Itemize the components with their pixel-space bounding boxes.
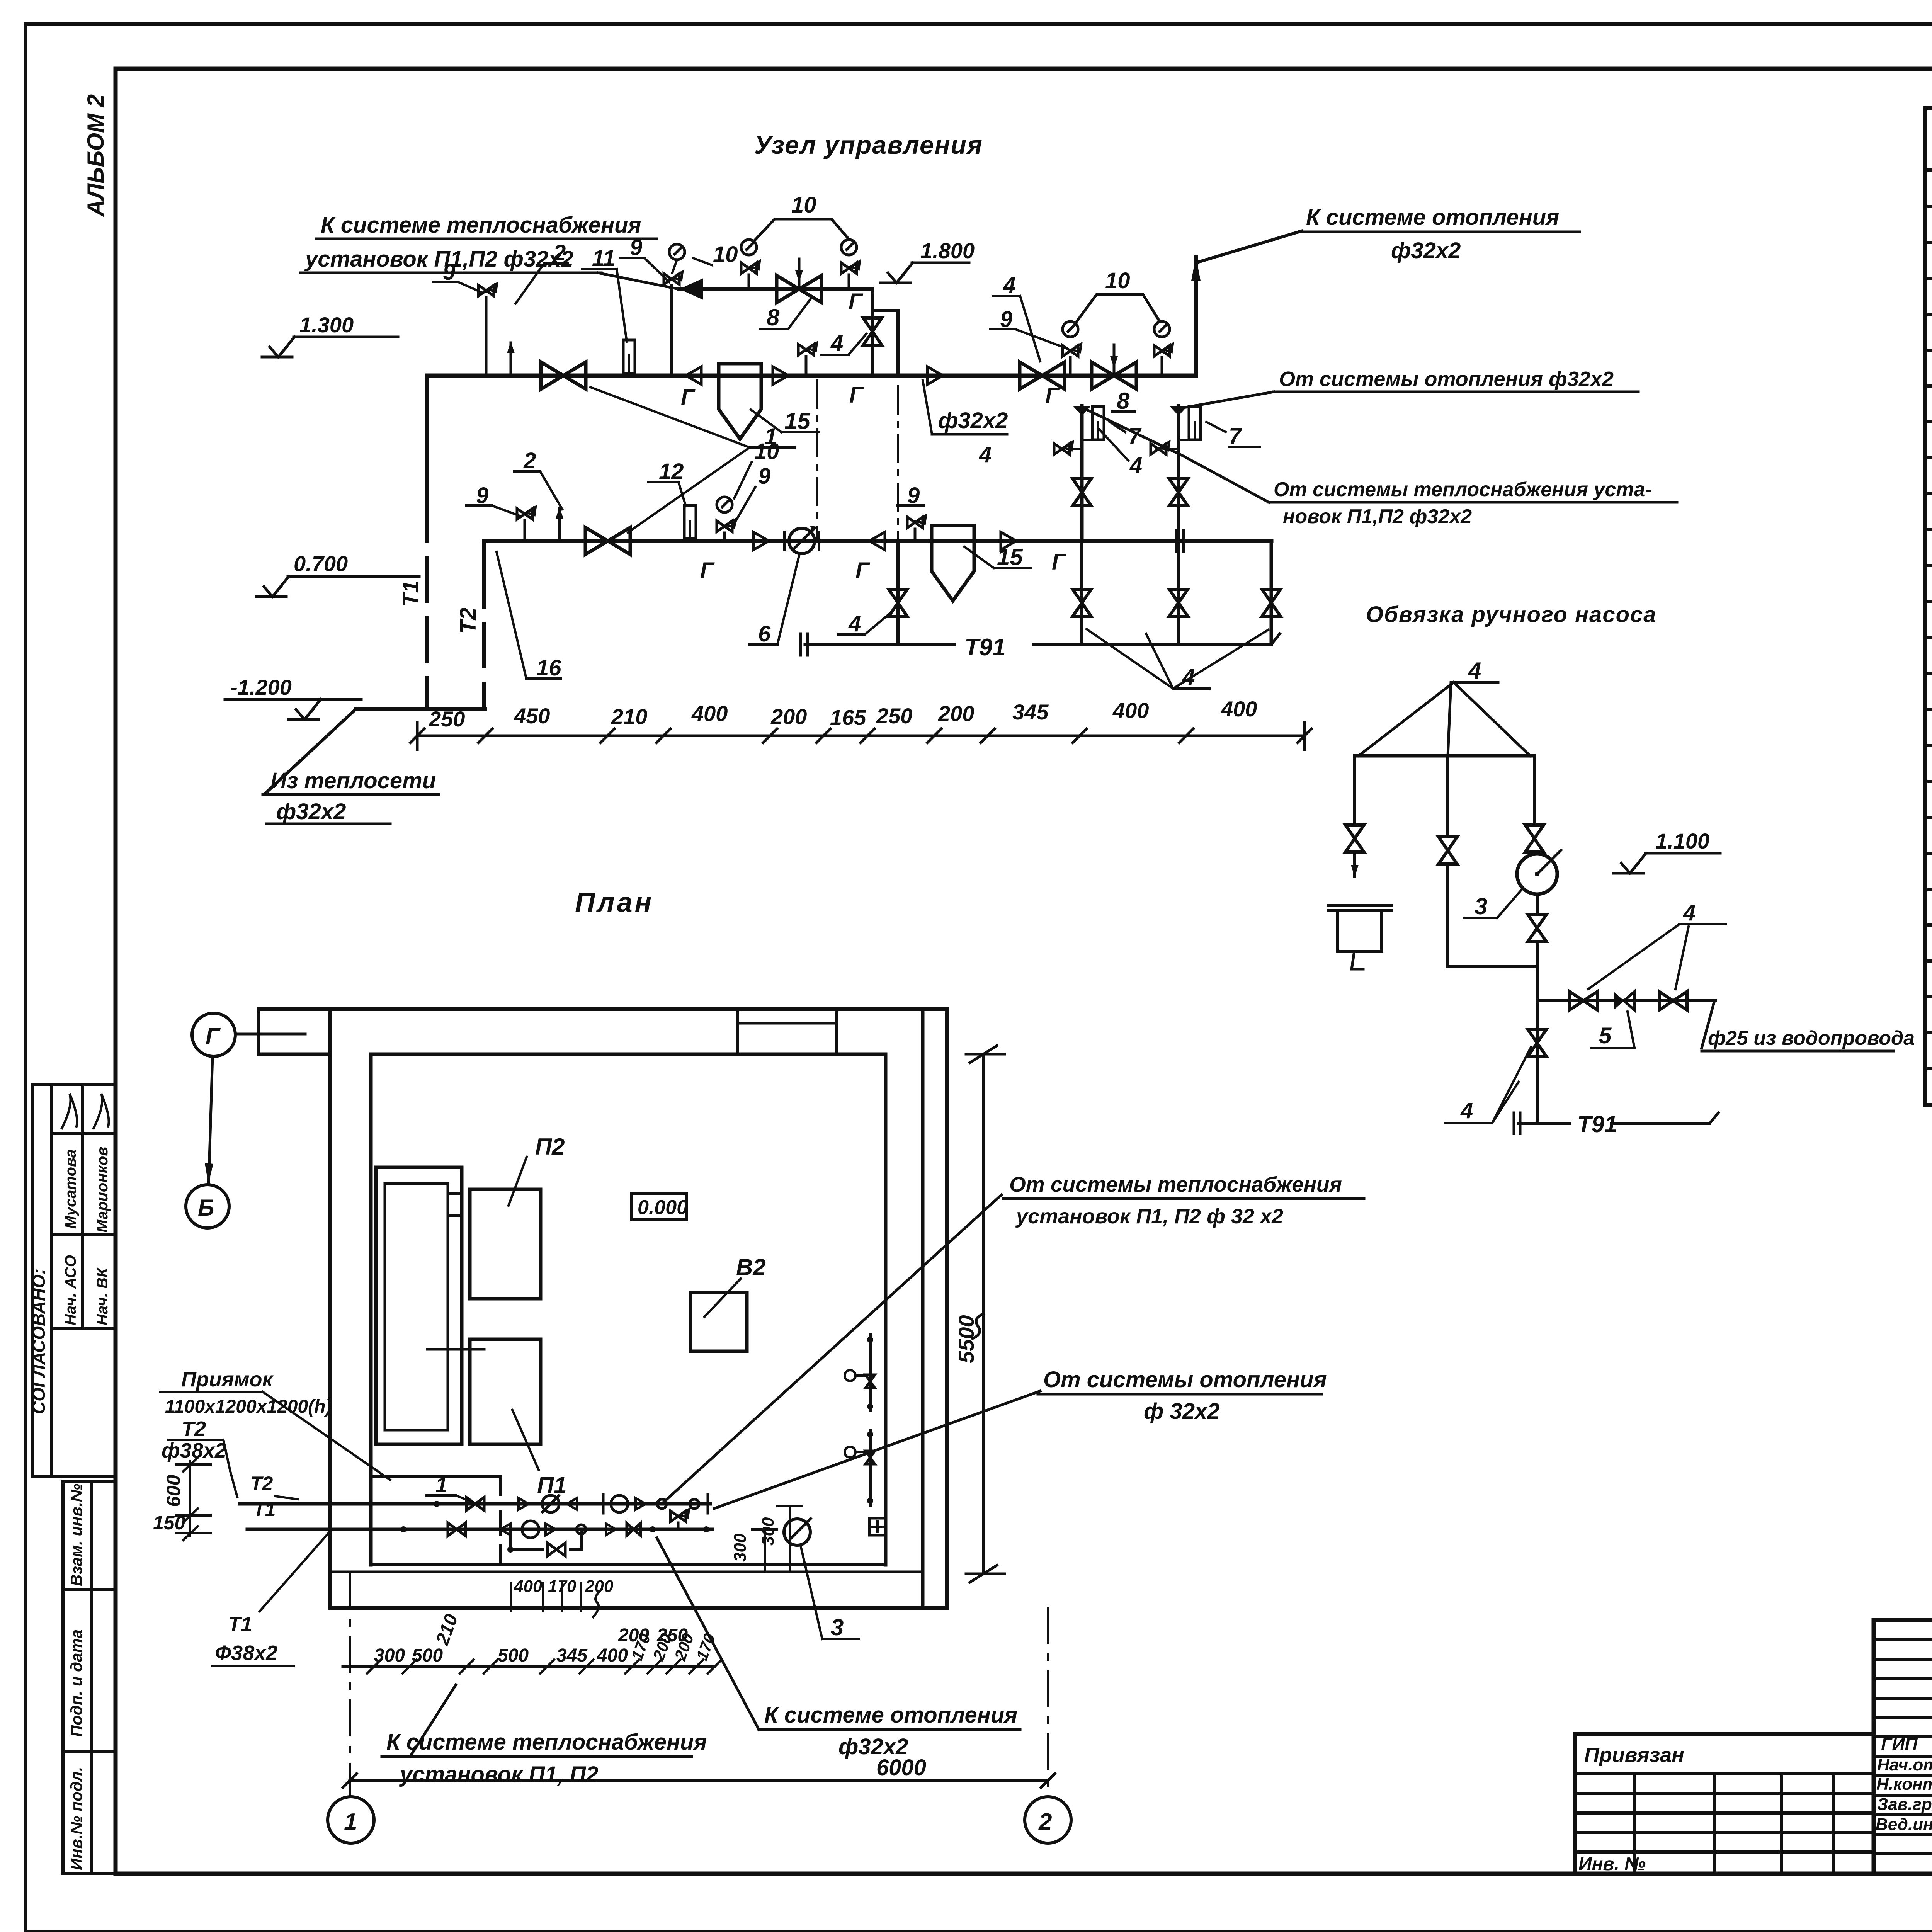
svg-text:К системе теплоснабжения: К системе теплоснабжения [321, 213, 641, 238]
dim chain lower [343, 1665, 715, 1668]
header bottom [1925, 168, 1932, 172]
svg-text:П2: П2 [535, 1134, 565, 1160]
svg-text:ф32х2: ф32х2 [1391, 238, 1461, 263]
valve 4 small with stem [798, 343, 817, 355]
gate valve 4 supply right [1020, 362, 1065, 389]
top wall window dividers [736, 1009, 739, 1054]
svg-text:Г: Г [681, 385, 696, 410]
svg-text:4: 4 [1003, 273, 1015, 298]
drain verticals to T91 [896, 541, 900, 645]
tank connection box [448, 1194, 462, 1216]
svg-text:345: 345 [556, 1645, 588, 1666]
check valve right [773, 367, 788, 384]
svg-text:400: 400 [691, 701, 728, 726]
unit P2 [470, 1189, 541, 1299]
gauge pair right with label 10 [1063, 344, 1081, 356]
svg-text:Т91: Т91 [1577, 1111, 1617, 1137]
plan T2 symbols [434, 1501, 440, 1507]
svg-text:400: 400 [1221, 697, 1257, 721]
svg-text:Взам. инв.№: Взам. инв.№ [67, 1483, 85, 1586]
tank inner [385, 1184, 448, 1430]
svg-text:ф32х2: ф32х2 [938, 408, 1008, 433]
riser to heating system [1194, 257, 1198, 376]
privyazan table [1575, 1734, 1874, 1874]
svg-text:Г: Г [206, 1023, 221, 1049]
svg-text:Нач. АСО: Нач. АСО [62, 1255, 79, 1325]
svg-text:1: 1 [344, 1809, 357, 1835]
svg-text:300: 300 [374, 1645, 405, 1666]
axis G-B arrow [209, 1056, 213, 1185]
svg-text:300: 300 [759, 1517, 777, 1546]
gauge pair on bypass: cock left [741, 261, 760, 274]
svg-text:500: 500 [412, 1645, 443, 1666]
leader from Ot sistemy teplosnabzheniya to plan [663, 1195, 1002, 1502]
podp i data box [63, 1590, 116, 1752]
svg-text:К системе теплоснабжения: К системе теплоснабжения [386, 1730, 707, 1755]
svg-text:10: 10 [713, 242, 738, 267]
inner frame bottom [116, 1872, 1932, 1876]
bypass drop [871, 289, 874, 376]
svg-text:Т91: Т91 [964, 634, 1006, 661]
bottom inlet line [355, 707, 485, 711]
svg-text:4: 4 [848, 611, 861, 636]
right branch [1533, 756, 1536, 823]
axis circle 1 [328, 1797, 374, 1843]
svg-text:Марионков: Марионков [94, 1147, 111, 1233]
T91 line [805, 643, 954, 646]
svg-text:Зав.гр.: Зав.гр. [1877, 1795, 1932, 1814]
svg-text:ф 32х2: ф 32х2 [1144, 1399, 1219, 1424]
tank mid tick [427, 1348, 484, 1351]
svg-text:Г: Г [849, 383, 864, 408]
valves on risers [1073, 479, 1091, 506]
axis G line [235, 1033, 305, 1036]
left wall inner [369, 1054, 373, 1565]
svg-text:200: 200 [770, 704, 807, 729]
svg-text:450: 450 [514, 704, 550, 728]
tank outer [376, 1167, 462, 1444]
svg-text:1.100: 1.100 [1655, 829, 1709, 853]
svg-text:210: 210 [611, 704, 647, 729]
svg-text:Подп. и дата: Подп. и дата [67, 1629, 85, 1737]
5500 dimension [982, 1054, 985, 1574]
branch to waterline [1537, 999, 1716, 1002]
svg-text:В2: В2 [736, 1254, 766, 1280]
axis circle 2 [1025, 1797, 1071, 1843]
axis 2 dashed [1047, 1608, 1049, 1795]
svg-text:План: План [575, 887, 654, 918]
T1 riser [425, 376, 429, 498]
sink [1328, 904, 1391, 907]
svg-text:7: 7 [1229, 423, 1242, 449]
svg-text:Ф38х2: Ф38х2 [215, 1641, 277, 1665]
svg-text:200: 200 [938, 701, 974, 726]
T2 riser [482, 541, 486, 564]
svg-text:1: 1 [435, 1473, 447, 1497]
svg-text:Б: Б [198, 1195, 214, 1221]
valve 4 vertical on bypass drop [863, 318, 882, 345]
thermometer 7 left [1092, 406, 1104, 440]
check valve left [686, 367, 701, 384]
svg-text:Т1: Т1 [253, 1499, 276, 1520]
svg-text:ф38х2: ф38х2 [162, 1439, 226, 1462]
svg-text:Г: Г [1052, 549, 1066, 575]
inner frame top line [116, 67, 1932, 71]
leader to bypass arrow [598, 273, 679, 289]
svg-text:250: 250 [876, 704, 912, 728]
svg-text:600: 600 [163, 1475, 184, 1507]
svg-text:250: 250 [429, 707, 465, 731]
leader from Ot sistemy otopleniya to plan [714, 1391, 1040, 1509]
svg-text:5: 5 [1599, 1023, 1612, 1048]
svg-text:8: 8 [767, 304, 780, 330]
svg-text:Узел управления: Узел управления [754, 131, 983, 159]
vzam inv box [63, 1482, 116, 1590]
svg-text:Н.контр.: Н.контр. [1876, 1775, 1932, 1794]
svg-text:500: 500 [498, 1645, 529, 1666]
svg-text:новок П1,П2 ф32х2: новок П1,П2 ф32х2 [1283, 505, 1472, 528]
svg-text:345: 345 [1012, 700, 1049, 724]
svg-text:12: 12 [659, 459, 684, 484]
bypass left arrow [679, 278, 703, 300]
svg-text:К системе отопления: К системе отопления [1306, 205, 1559, 230]
svg-text:10: 10 [791, 192, 816, 218]
svg-text:2: 2 [553, 240, 566, 265]
return main pipe T2 [484, 539, 1271, 543]
svg-text:10: 10 [1105, 268, 1130, 293]
svg-text:ГИП: ГИП [1881, 1734, 1918, 1754]
svg-text:4: 4 [1129, 453, 1142, 478]
svg-text:4: 4 [830, 331, 843, 356]
check valve [753, 532, 769, 550]
gate valve 1 return [585, 527, 630, 554]
axis circle G [192, 1013, 235, 1056]
svg-text:-1.200: -1.200 [230, 675, 292, 699]
valve below pump [1536, 894, 1539, 913]
0.000 level box [632, 1194, 686, 1220]
cock on right riser [1151, 442, 1169, 454]
section line dashdot [897, 386, 899, 597]
svg-text:9: 9 [630, 235, 642, 260]
svg-text:4: 4 [1460, 1098, 1473, 1123]
svg-text:3: 3 [831, 1614, 844, 1640]
svg-text:Мусатова: Мусатова [62, 1149, 79, 1229]
svg-text:200: 200 [649, 1631, 675, 1663]
svg-text:СОГЛАСОВАНО:: СОГЛАСОВАНО: [29, 1269, 49, 1414]
svg-text:Из теплосети: Из теплосети [270, 768, 436, 793]
svg-text:Инв. №: Инв. № [1578, 1854, 1646, 1874]
svg-text:11: 11 [592, 246, 615, 271]
svg-text:Т1: Т1 [228, 1613, 252, 1636]
right wall [884, 1054, 888, 1565]
svg-text:Приямок: Приямок [181, 1368, 274, 1391]
svg-text:ф32х2: ф32х2 [276, 799, 346, 824]
svg-text:К системе отопления: К системе отопления [764, 1702, 1017, 1728]
svg-text:АЛЬБОМ 2: АЛЬБОМ 2 [83, 94, 109, 217]
inv no podl box [63, 1752, 116, 1874]
svg-text:400: 400 [514, 1577, 543, 1596]
svg-text:4: 4 [1683, 900, 1696, 925]
svg-text:6: 6 [758, 621, 771, 646]
mud filter 15 return [932, 526, 974, 601]
control valve 8 left [777, 276, 821, 303]
cock on left riser [1054, 442, 1073, 454]
svg-text:ф32х2: ф32х2 [838, 1734, 908, 1759]
middle branch [1446, 756, 1449, 835]
thermometer 11 [623, 340, 635, 373]
plan T1 symbols [400, 1526, 406, 1532]
svg-text:4: 4 [979, 442, 992, 467]
svg-text:Т2: Т2 [182, 1417, 206, 1440]
axis 1 dashed [349, 1574, 351, 1795]
svg-text:9: 9 [758, 464, 770, 489]
svg-text:ф25 из водопровода: ф25 из водопровода [1708, 1027, 1915, 1049]
bypass loop under T1 [510, 1529, 543, 1549]
svg-text:Обвязка ручного насоса: Обвязка ручного насоса [1366, 602, 1657, 627]
svg-text:2: 2 [1038, 1809, 1052, 1835]
svg-text:Т2: Т2 [250, 1473, 273, 1494]
svg-text:Г: Г [1045, 383, 1060, 408]
svg-text:210: 210 [432, 1611, 462, 1648]
svg-text:От системы теплоснабжения у: От системы теплоснабжения уста- [1274, 478, 1652, 501]
hook to label [1702, 1001, 1714, 1048]
svg-text:Нач.отд.: Нач.отд. [1877, 1755, 1932, 1774]
svg-text:0.700: 0.700 [294, 551, 348, 576]
thermometer risers pair [1080, 406, 1084, 541]
thermometer 7 right [1189, 406, 1201, 440]
cock 9 [478, 284, 497, 296]
bottom wall [371, 1563, 886, 1566]
svg-text:Вед.инж: Вед.инж [1876, 1815, 1932, 1834]
gate valve 1 supply [541, 362, 586, 389]
svg-text:3: 3 [1475, 893, 1487, 919]
hand pump 3 [1517, 854, 1557, 894]
svg-text:От системы теплоснабжения: От системы теплоснабжения [1009, 1172, 1342, 1196]
svg-text:165: 165 [830, 705, 866, 730]
svg-text:Т1: Т1 [398, 580, 423, 607]
svg-text:Инв.№ подл.: Инв.№ подл. [67, 1767, 85, 1870]
check valve right2 [1001, 532, 1016, 550]
priyamok rect in plan [371, 1477, 500, 1495]
svg-text:Г: Г [855, 558, 870, 583]
inner frame left [114, 69, 118, 1874]
approval stamp box [32, 1084, 116, 1476]
main down pipe [1536, 944, 1539, 1123]
cock 9 return [517, 507, 536, 519]
svg-text:2: 2 [523, 448, 536, 473]
svg-text:400: 400 [597, 1645, 628, 1666]
svg-text:10: 10 [754, 439, 779, 464]
bypass pipe [679, 287, 872, 291]
T91 stub [1519, 1122, 1570, 1125]
svg-text:8: 8 [1117, 388, 1130, 414]
cock 9 + gauge 10 [664, 272, 682, 284]
svg-text:установок П1,П2 ф32х2: установок П1,П2 ф32х2 [304, 247, 573, 272]
right wall risers [869, 1335, 872, 1410]
safety valve 2 [507, 342, 515, 376]
svg-text:установок П1, П2 ф 32 х2: установок П1, П2 ф 32 х2 [1015, 1205, 1283, 1228]
svg-text:Г: Г [849, 289, 863, 314]
axis circle B [186, 1185, 229, 1228]
gauge left [741, 240, 757, 255]
svg-text:0.000: 0.000 [638, 1196, 688, 1219]
check valve left [869, 532, 885, 550]
left branch [1353, 756, 1356, 823]
gauge pair label 10 arc [755, 219, 849, 240]
svg-text:От системы отопления ф32х2: От системы отопления ф32х2 [1279, 367, 1614, 391]
svg-text:5500: 5500 [954, 1315, 978, 1363]
svg-text:150: 150 [153, 1512, 185, 1534]
svg-text:Привязан: Привязан [1584, 1743, 1684, 1767]
gauge 10 + cock 9 return [717, 497, 732, 512]
top wall inner [371, 1053, 886, 1056]
check valve on supply right [927, 367, 943, 384]
left wall outer [328, 1009, 332, 1608]
svg-text:1.800: 1.800 [920, 238, 975, 263]
svg-text:установок П1, П2: установок П1, П2 [399, 1762, 599, 1787]
inlet diagonal from teploset [266, 709, 355, 793]
B2 box [690, 1293, 747, 1351]
cock 9 on return right [907, 515, 926, 528]
valve 4 on main down [1528, 1029, 1546, 1056]
svg-text:1100х1200х1200(h): 1100х1200х1200(h) [165, 1396, 332, 1417]
svg-text:Т2: Т2 [456, 607, 481, 634]
gauge 3 in plan [784, 1519, 810, 1545]
6000 dim line [350, 1779, 1048, 1782]
plus box [869, 1518, 886, 1535]
pipe end marks [1175, 530, 1178, 552]
thermometer 12 [684, 505, 696, 539]
supply main pipe T1 [427, 374, 1196, 378]
unit P1 [470, 1339, 541, 1444]
safety 2 return [556, 507, 563, 541]
flow meter 6 [789, 528, 815, 554]
svg-text:15: 15 [784, 408, 811, 434]
dimension chain [417, 723, 1304, 750]
header line [1355, 754, 1534, 758]
bypass jog [872, 311, 898, 376]
gauge right [841, 240, 857, 255]
cock right of valve8 [841, 261, 860, 274]
svg-text:400: 400 [1112, 698, 1149, 723]
T1 pipe [247, 1528, 713, 1531]
top wall outer [259, 1007, 947, 1011]
svg-text:300: 300 [731, 1533, 750, 1562]
svg-text:Г: Г [700, 558, 715, 583]
svg-text:16: 16 [536, 655, 561, 680]
mud filter 15 [719, 364, 761, 439]
svg-text:Нач. ВК: Нач. ВК [94, 1267, 111, 1325]
svg-text:1.300: 1.300 [299, 313, 354, 337]
svg-text:4: 4 [1468, 658, 1481, 684]
control valve 8 right [1092, 362, 1136, 389]
row lines [1925, 205, 1932, 208]
T2 pipe [240, 1502, 710, 1506]
svg-text:От системы отопления: От системы отопления [1043, 1367, 1327, 1392]
